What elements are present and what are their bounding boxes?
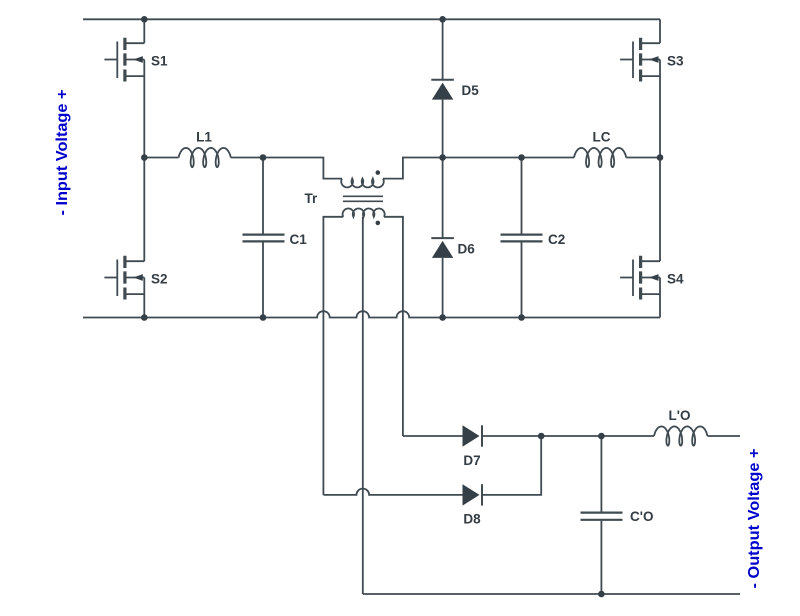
wire C'O bottom to output bottom wire: [600, 521, 602, 594]
wire node C to transformer primary left: [263, 158, 342, 179]
transformer Tr primary winding: [341, 179, 384, 188]
wire secondary left to D8 anode with hop over center tap: [323, 489, 462, 495]
svg-text:L1: L1: [196, 130, 212, 145]
wire node E to C2 top: [521, 158, 523, 234]
wire S4 source to bottom rail: [659, 278, 661, 318]
wire node A to S2 drain: [143, 158, 145, 262]
output bottom wire (center tap to output - terminal): [363, 593, 740, 595]
wire node G to L'O: [601, 435, 654, 437]
junction bottom-D6: [439, 314, 446, 321]
wire secondary right lead down to D7 row: [384, 217, 403, 436]
svg-text:C'O: C'O: [630, 509, 653, 524]
transistor S2: [104, 256, 144, 300]
transformer secondary polarity dot: [376, 221, 381, 226]
capacitor C2: [501, 235, 543, 242]
svg-text:D8: D8: [463, 512, 481, 527]
diode D8: [463, 484, 480, 505]
wire top rail to D5 cathode: [442, 19, 444, 80]
wire D8 cathode to node F: [482, 436, 541, 495]
svg-text:- Input Voltage +: - Input Voltage +: [54, 90, 71, 216]
wire secondary center tap down: [362, 217, 364, 594]
wire node A to L1: [144, 157, 178, 159]
top rail: [83, 18, 660, 20]
wire D5 anode to node D: [442, 100, 444, 158]
node E junction: [518, 154, 525, 161]
wire L'O to output + terminal: [708, 435, 741, 437]
node A junction: [141, 154, 148, 161]
node B junction: [657, 154, 664, 161]
wire C2 bottom to bottom rail: [521, 242, 523, 317]
node D junction: [439, 154, 446, 161]
junction output bottom: [598, 591, 605, 598]
capacitor C1: [243, 235, 285, 242]
wire S2 source to bottom rail: [143, 278, 145, 318]
svg-text:S2: S2: [151, 272, 168, 287]
wire transformer primary right to node D: [383, 158, 443, 179]
inductor L'O: [654, 426, 708, 445]
transformer Tr core: [343, 196, 383, 201]
junction top-S1: [141, 16, 148, 23]
junction bottom-S2: [141, 314, 148, 321]
wire S3 source to node B: [659, 60, 661, 158]
wire S1 source to node A: [143, 60, 145, 158]
wire node G to C'O top: [600, 436, 602, 512]
svg-text:Tr: Tr: [305, 191, 319, 206]
node F junction: [538, 433, 545, 440]
wire secondary right to D7 anode: [403, 435, 463, 437]
wire C1 bottom to bottom rail: [262, 242, 264, 317]
svg-text:C2: C2: [548, 232, 565, 247]
wire node C to C1 top: [262, 158, 264, 234]
wire D6 anode to bottom rail: [442, 258, 444, 318]
svg-text:- Output Voltage +: - Output Voltage +: [746, 449, 763, 589]
bottom rail with wire hops: [83, 311, 660, 317]
diode D6: [431, 237, 454, 239]
wire node D to D6 cathode: [442, 158, 444, 239]
capacitor C'O: [581, 513, 623, 520]
wire L1 to node C: [231, 157, 263, 159]
svg-text:LC: LC: [593, 130, 611, 145]
wire D7 cathode to node F: [482, 435, 541, 437]
transistor S3: [620, 38, 660, 82]
transistor S4: [620, 256, 660, 300]
wire node D to node E: [443, 157, 522, 159]
wire LC to node B: [626, 157, 660, 159]
inductor L1: [179, 148, 231, 167]
inductor LC: [574, 148, 626, 167]
svg-text:S1: S1: [151, 54, 168, 69]
junction bottom-C1: [260, 314, 267, 321]
diode D5: [431, 79, 454, 81]
transformer Tr secondary winding: [343, 209, 385, 217]
wire node E to LC: [522, 157, 575, 159]
node C junction: [260, 154, 267, 161]
transformer primary polarity dot: [376, 170, 381, 175]
svg-text:S4: S4: [667, 272, 684, 287]
svg-text:S3: S3: [667, 54, 684, 69]
diode D7: [463, 425, 480, 446]
wire S1 drain to top rail: [143, 19, 145, 43]
junction top-D5: [439, 16, 446, 23]
wire secondary left lead down to D8 row: [323, 217, 343, 495]
svg-text:L'O: L'O: [669, 408, 691, 423]
wire node F to node G: [541, 435, 601, 437]
node G junction: [598, 433, 605, 440]
transistor S1: [104, 38, 144, 82]
svg-text:D7: D7: [463, 453, 480, 468]
svg-text:C1: C1: [290, 232, 308, 247]
junction bottom-C2: [518, 314, 525, 321]
svg-text:D5: D5: [462, 83, 480, 98]
svg-text:D6: D6: [458, 242, 476, 257]
wire S3 drain to top rail: [659, 19, 661, 43]
wire node B to S4 drain: [659, 158, 661, 262]
